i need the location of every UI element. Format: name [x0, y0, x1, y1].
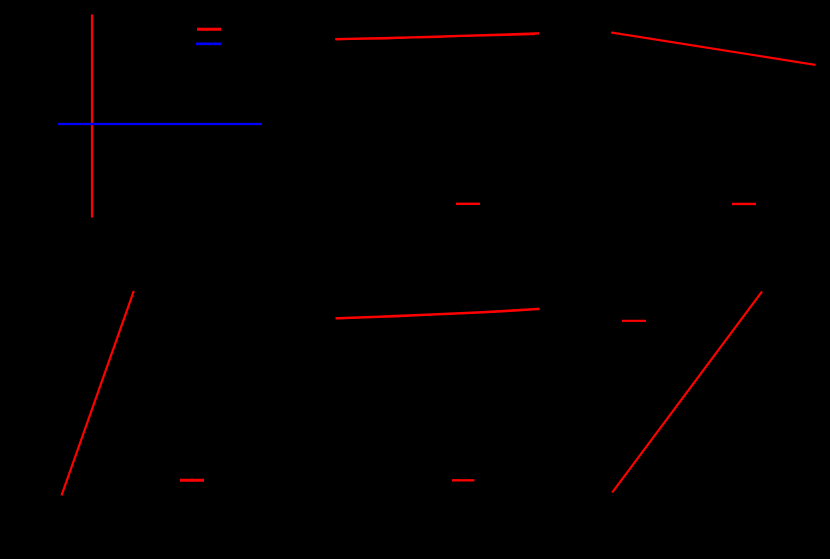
panel 5: red noisy data trace overlapping fit [337, 310, 539, 319]
panel 6 (bottom-right): red steep rising data line [612, 292, 762, 493]
panel 1: blue horizontal data line [58, 123, 262, 125]
panel 4 (bottom-left): red steep rising data line [62, 291, 134, 496]
panel 2: red noisy data trace overlapping fit [336, 35, 535, 40]
panel 3 legend: red handle [732, 203, 756, 205]
panel 3 (top-right): red falling data line [611, 33, 815, 65]
panel 2 legend: red handle [456, 203, 480, 205]
panel 5 legend: red handle [452, 479, 474, 481]
panel 1 (top-left): red vertical data line [91, 15, 93, 218]
panel 4 legend: red handle [180, 479, 204, 482]
panel 1 legend: blue handle [196, 42, 221, 45]
panel 6 legend: red handle [622, 320, 646, 322]
panel 5 (bottom-middle): red rising data line [336, 309, 540, 319]
panel 1 legend: red handle [197, 28, 221, 31]
panel 2 (top-middle): red rising data line [335, 33, 539, 39]
